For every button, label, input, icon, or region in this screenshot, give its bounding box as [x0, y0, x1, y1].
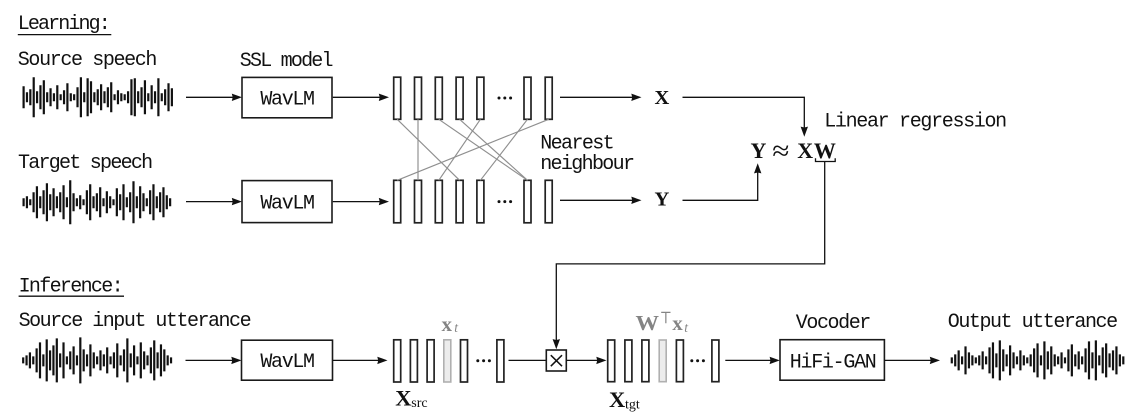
wire WavLM to features (target) [333, 201, 381, 203]
waveform output utterance [952, 340, 1124, 380]
wire waveform to WavLM (inference) [186, 359, 233, 361]
svg-text:WavLM: WavLM [260, 88, 315, 111]
wire waveform to WavLM (target) [186, 201, 233, 203]
block HiFi-GAN [780, 340, 884, 381]
svg-text:Y: Y [655, 189, 670, 211]
svg-text:X: X [797, 138, 813, 163]
svg-text:Inference:: Inference: [19, 276, 124, 299]
feature vectors X (top row bars) [394, 77, 401, 119]
svg-text:Target speech: Target speech [18, 152, 153, 175]
svg-text:Linear regression: Linear regression [824, 111, 1007, 134]
block WavLM (learning, source) [242, 77, 332, 117]
svg-text:WavLM: WavLM [260, 351, 315, 374]
svg-text:src: src [411, 396, 427, 411]
svg-text:Vocoder: Vocoder [796, 312, 872, 335]
multiply node [546, 350, 566, 371]
svg-text:Nearest: Nearest [540, 132, 615, 155]
feature vectors X_src [394, 340, 401, 382]
waveform source input [23, 337, 171, 383]
block WavLM (inference) [242, 340, 333, 380]
svg-text:X: X [655, 87, 670, 109]
svg-text:HiFi-GAN: HiFi-GAN [790, 351, 877, 374]
svg-text:WavLM: WavLM [260, 192, 315, 215]
svg-text:Source input utterance: Source input utterance [19, 310, 252, 333]
wire Y to regression [683, 172, 758, 200]
svg-text:W: W [636, 311, 660, 335]
bracket under W [816, 158, 836, 161]
svg-text:x: x [442, 312, 453, 336]
svg-text:Output utterance: Output utterance [948, 311, 1118, 334]
wire W to multiply [556, 162, 824, 341]
svg-text:≈: ≈ [772, 136, 789, 166]
wire features to X [560, 96, 633, 98]
svg-text:Y: Y [751, 138, 767, 163]
wire WavLM to X_src features [333, 359, 379, 361]
svg-text:W: W [814, 138, 836, 163]
waveform target speech [24, 180, 171, 224]
feature vectors X_tgt [608, 340, 615, 382]
svg-text:Source speech: Source speech [18, 49, 158, 72]
svg-text:x: x [672, 311, 683, 335]
wire HiFi-GAN to output [884, 359, 931, 361]
block WavLM (learning, target) [242, 181, 332, 223]
wire X_src to multiply [509, 359, 547, 361]
wire waveform to WavLM (top) [186, 96, 233, 98]
wire X to regression [683, 97, 805, 128]
nearest neighbour mapping lines [397, 119, 459, 180]
svg-text:X: X [609, 387, 625, 412]
feature vectors Y (bottom row bars) [394, 180, 401, 223]
svg-text:X: X [395, 386, 411, 411]
svg-text:neighbour: neighbour [540, 153, 635, 176]
wire X_tgt to HiFi-GAN [725, 359, 771, 361]
wire features to Y [560, 199, 633, 201]
wire WavLM to features (top) [333, 96, 381, 98]
svg-text:SSL model: SSL model [240, 50, 334, 73]
svg-text:tgt: tgt [625, 397, 640, 412]
wire multiply to X_tgt features [566, 359, 598, 361]
waveform source speech [24, 77, 172, 117]
svg-text:Learning:: Learning: [18, 13, 111, 36]
